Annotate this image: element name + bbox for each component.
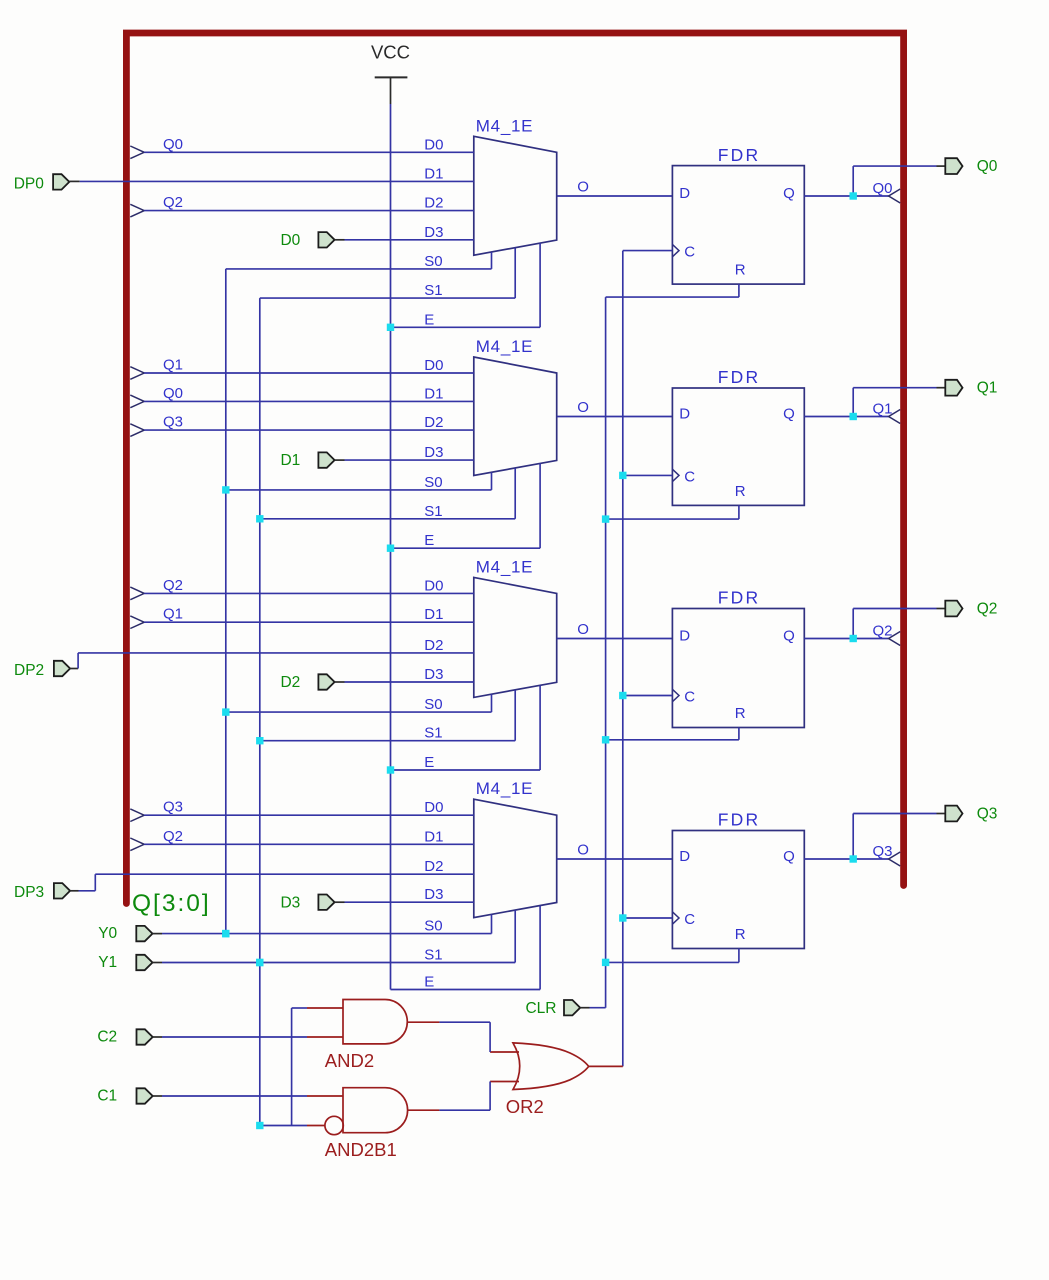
flip-flop FDR4 body: [672, 831, 804, 949]
svg-text:D: D: [679, 405, 690, 422]
svg-text:D2: D2: [424, 195, 443, 212]
svg-text:O: O: [577, 399, 589, 416]
svg-text:D0: D0: [424, 799, 443, 816]
junction reset row 4: [602, 959, 609, 966]
or gate OR2: [513, 1043, 589, 1090]
input port D0: [318, 232, 334, 247]
wire Q2 tap to mux U4: [144, 843, 474, 845]
input port D3: [318, 895, 334, 910]
svg-text:D0: D0: [424, 577, 443, 594]
svg-text:R: R: [735, 483, 746, 500]
svg-text:C: C: [684, 469, 695, 486]
wire FDR3 R to reset net: [738, 728, 740, 740]
input port DP3: [54, 883, 70, 898]
mux U2 M4_1E body: [474, 357, 557, 476]
wire DP3 to mux U4 D2: [70, 890, 78, 892]
junction clock row 4: [619, 914, 626, 921]
wire D3 port to mux U4: [335, 901, 345, 903]
and gate AND2B1 input stubs: [307, 1095, 343, 1097]
bus tap arrow Q3 output: [889, 852, 901, 866]
svg-text:S0: S0: [424, 253, 442, 270]
svg-text:D0: D0: [280, 232, 300, 249]
junction reset row 2: [602, 515, 609, 522]
junction S1 row 3: [256, 737, 263, 744]
wire S1 to mux U1: [260, 297, 515, 299]
svg-text:DP3: DP3: [14, 884, 44, 901]
svg-text:Q3: Q3: [163, 799, 183, 816]
and gate AND2B1 input bubble: [325, 1116, 343, 1134]
svg-text:Q: Q: [783, 185, 795, 202]
svg-text:D1: D1: [424, 385, 443, 402]
junction clock row 2: [619, 472, 626, 479]
and gate AND2: [343, 1000, 407, 1044]
svg-text:Q0: Q0: [163, 136, 183, 153]
svg-text:Q: Q: [783, 627, 795, 644]
svg-text:CLR: CLR: [525, 1000, 556, 1017]
flip-flop FDR2 clock wedge: [672, 469, 679, 481]
svg-text:R: R: [735, 262, 746, 279]
svg-text:R: R: [735, 705, 746, 722]
bus tap arrow Q2 row 3: [130, 587, 144, 600]
output port Q2: [945, 601, 962, 617]
bus tap arrow Q3 row 4: [130, 809, 144, 822]
wire Q3 to output port: [852, 814, 854, 860]
svg-text:FDR: FDR: [718, 588, 761, 608]
input port D2: [318, 674, 334, 689]
svg-text:Q2: Q2: [163, 194, 183, 211]
svg-text:D1: D1: [280, 452, 300, 469]
junction S0 row 3: [222, 708, 229, 715]
svg-text:E: E: [424, 311, 434, 328]
svg-text:C: C: [684, 244, 695, 261]
bus tap arrow Q3 row 2: [130, 424, 144, 437]
wire E to mux U1: [391, 326, 541, 328]
wire clock to FDR2 C: [623, 474, 673, 476]
svg-text:Q3: Q3: [163, 414, 183, 431]
svg-text:C: C: [684, 689, 695, 706]
wire clock to FDR3 C: [623, 695, 673, 697]
junction S0 row 2: [222, 486, 229, 493]
svg-text:Q1: Q1: [873, 401, 893, 418]
svg-text:FDR: FDR: [718, 367, 761, 387]
svg-text:Q3: Q3: [977, 806, 998, 823]
svg-text:D3: D3: [424, 224, 443, 241]
wire Y0 to S0 net: [153, 933, 163, 935]
flip-flop FDR3 body: [672, 609, 804, 728]
wire Q2 tap to mux U1: [144, 210, 474, 212]
svg-text:AND2B1: AND2B1: [325, 1139, 397, 1160]
svg-text:M4_1E: M4_1E: [476, 779, 533, 798]
bus tap arrow Q0 output: [889, 189, 901, 203]
wire Q1 tap to mux U3: [144, 621, 474, 623]
svg-text:E: E: [424, 754, 434, 771]
bus tap arrow Q1 output: [889, 410, 901, 424]
and gate AND2B1 output stub: [407, 1109, 439, 1111]
svg-text:D1: D1: [424, 165, 443, 182]
wire DP0 to mux U1 D1: [69, 180, 79, 182]
svg-text:FDR: FDR: [718, 145, 761, 165]
wire S0 to mux U3: [226, 711, 492, 713]
output port Q3: [945, 806, 962, 822]
junction S1 row 4: [256, 959, 263, 966]
svg-text:Q: Q: [783, 405, 795, 422]
mux U3 M4_1E body: [474, 577, 557, 697]
svg-text:D3: D3: [424, 886, 443, 903]
wire FDR3 Q output: [804, 638, 853, 640]
junction clock row 3: [619, 692, 626, 699]
wire C1 to AND2B1: [153, 1095, 162, 1097]
wire D1 port to mux U2: [335, 459, 345, 461]
svg-text:D3: D3: [424, 444, 443, 461]
wire D2 port to mux U3: [335, 681, 345, 683]
svg-text:D1: D1: [424, 606, 443, 623]
bus tap arrow Q2 output: [889, 632, 901, 646]
bus tap arrow Q0 row 2: [130, 395, 144, 408]
flip-flop FDR1 clock wedge: [672, 244, 679, 256]
svg-text:S1: S1: [424, 947, 442, 964]
junction reset row 3: [602, 736, 609, 743]
svg-text:D2: D2: [424, 414, 443, 431]
svg-text:VCC: VCC: [371, 42, 410, 63]
svg-text:S0: S0: [424, 918, 442, 935]
wire S1 to mux U3: [260, 740, 515, 742]
svg-text:D3: D3: [424, 666, 443, 683]
wire DP2 to mux U3 D2: [70, 668, 78, 670]
junction Q row 1: [850, 192, 857, 199]
svg-text:M4_1E: M4_1E: [476, 557, 533, 576]
wire E to mux U4: [391, 989, 541, 991]
svg-text:S1: S1: [424, 282, 442, 299]
svg-text:D2: D2: [424, 858, 443, 875]
svg-text:D1: D1: [424, 828, 443, 845]
and gate AND2 output stub: [407, 1021, 439, 1023]
wire O to FDR1 D: [557, 195, 673, 197]
bus tap arrow Q2 row 1: [130, 204, 144, 217]
wire FDR1 Q output: [804, 195, 853, 197]
svg-text:Y0: Y0: [98, 925, 117, 942]
svg-text:D0: D0: [424, 136, 443, 153]
svg-text:Q0: Q0: [977, 158, 998, 175]
svg-text:S0: S0: [424, 696, 442, 713]
wire O to FDR3 D: [557, 638, 673, 640]
junction Y1 S1: [256, 959, 263, 966]
svg-text:Q2: Q2: [163, 577, 183, 594]
svg-text:D2: D2: [280, 674, 300, 691]
svg-text:D2: D2: [424, 637, 443, 654]
wire O to FDR4 D: [557, 858, 673, 860]
bus tap arrow Q1 row 3: [130, 616, 144, 629]
svg-text:OR2: OR2: [506, 1096, 544, 1117]
bus Q[3:0] U-frame: [126, 33, 903, 904]
wire O to FDR2 D: [557, 416, 673, 418]
svg-text:S1: S1: [424, 503, 442, 520]
svg-text:Q0: Q0: [873, 180, 893, 197]
junction E row 3: [387, 766, 394, 773]
wire S0 to mux U4: [226, 933, 492, 935]
wire FDR1 R to reset net: [738, 284, 740, 297]
svg-text:Q1: Q1: [163, 357, 183, 374]
svg-text:Y1: Y1: [98, 954, 117, 971]
svg-text:R: R: [735, 926, 746, 943]
bus tap arrow Q1 row 2: [130, 367, 144, 380]
flip-flop FDR2 body: [672, 388, 804, 505]
wire C2 to AND2: [153, 1036, 162, 1038]
svg-text:O: O: [577, 842, 589, 859]
svg-text:D3: D3: [280, 894, 300, 911]
input port Y1: [136, 955, 152, 970]
output port Q0: [945, 158, 962, 174]
svg-text:D: D: [679, 185, 690, 202]
svg-text:O: O: [577, 621, 589, 638]
svg-text:Q1: Q1: [977, 380, 998, 397]
svg-text:Q2: Q2: [873, 623, 893, 640]
junction S0 row 4: [222, 930, 229, 937]
wire Q0 tap to mux U1: [144, 151, 474, 153]
junction S1 row 2: [256, 515, 263, 522]
svg-text:Q2: Q2: [163, 828, 183, 845]
svg-text:S1: S1: [424, 725, 442, 742]
or gate OR2 output stub: [589, 1065, 623, 1067]
wire Q0 tap to mux U2: [144, 400, 474, 402]
wire AND2 top input from S1ext: [292, 1007, 307, 1009]
power VCC symbol: [375, 76, 408, 78]
svg-text:E: E: [424, 974, 434, 991]
svg-text:DP2: DP2: [14, 662, 44, 679]
wire FDR2 R to reset net: [738, 505, 740, 519]
wire Q1 tap to mux U2: [144, 372, 474, 374]
wire S1 to mux U4: [260, 962, 515, 964]
input port C1: [137, 1088, 153, 1103]
input port C2: [137, 1029, 153, 1044]
wire S1 net vertical: [259, 298, 261, 1125]
wire Q3 tap to mux U2: [144, 429, 474, 431]
bus tap arrow Q2 row 4: [130, 838, 144, 851]
wire CLR to reset net: [580, 1007, 589, 1009]
svg-text:AND2: AND2: [325, 1050, 374, 1071]
svg-text:FDR: FDR: [718, 810, 761, 830]
wire C clock net vertical: [622, 251, 624, 1067]
wire FDR4 Q output: [804, 858, 853, 860]
wire Q3 tap to mux U4: [144, 814, 474, 816]
wire FDR2 Q output: [804, 416, 853, 418]
svg-text:D: D: [679, 627, 690, 644]
svg-text:D: D: [679, 848, 690, 865]
wire S0 to mux U2: [226, 489, 492, 491]
bus tap arrow Q0 row 1: [130, 146, 144, 159]
junction Q row 4: [850, 855, 857, 862]
wire Q0 to output port: [852, 166, 854, 196]
wire FDR4 R to reset net: [738, 949, 740, 963]
wire clock to FDR1 C: [623, 250, 673, 252]
svg-text:Q: Q: [783, 848, 795, 865]
junction E row 2: [387, 545, 394, 552]
wire Y1 to S1 net: [153, 962, 163, 964]
svg-text:Q0: Q0: [163, 385, 183, 402]
wire VCC net vertical: [390, 104, 392, 990]
wire AND2B1 out to OR2: [439, 1109, 490, 1111]
svg-text:D0: D0: [424, 357, 443, 374]
flip-flop FDR4 clock wedge: [672, 912, 679, 924]
and gate AND2B1: [343, 1088, 408, 1133]
svg-text:S0: S0: [424, 474, 442, 491]
input port DP2: [54, 661, 70, 676]
mux U1 M4_1E body: [474, 136, 557, 255]
wire S0 to mux U1: [226, 268, 492, 270]
output port Q1: [945, 380, 962, 396]
junction Y0 S0: [222, 930, 229, 937]
svg-text:C2: C2: [97, 1029, 117, 1046]
input port CLR: [564, 1000, 580, 1015]
svg-text:O: O: [577, 179, 589, 196]
or gate OR2 input stubs: [490, 1051, 519, 1053]
flip-flop FDR3 clock wedge: [672, 689, 679, 701]
flip-flop FDR1 body: [672, 166, 804, 285]
input port D1: [318, 452, 334, 467]
junction Q row 2: [850, 413, 857, 420]
wire S1 ext to AND2B1: [260, 1125, 307, 1127]
svg-text:Q1: Q1: [163, 606, 183, 623]
svg-text:C1: C1: [97, 1088, 117, 1105]
svg-text:Q[3:0]: Q[3:0]: [132, 890, 211, 917]
svg-text:M4_1E: M4_1E: [476, 116, 533, 135]
svg-text:Q3: Q3: [873, 843, 893, 860]
junction Q row 3: [850, 635, 857, 642]
wire R net vertical: [605, 297, 607, 1008]
junction S1 AND2B1: [256, 1122, 263, 1129]
svg-text:DP0: DP0: [14, 175, 45, 192]
wire Q2 tap to mux U3: [144, 592, 474, 594]
junction E row 1: [387, 324, 394, 331]
svg-text:C: C: [684, 911, 695, 928]
svg-text:Q2: Q2: [977, 601, 998, 618]
wire AND2 out to OR2: [439, 1021, 490, 1023]
svg-text:M4_1E: M4_1E: [476, 337, 533, 356]
input port DP0: [53, 174, 69, 189]
wire Q2 to output port: [852, 609, 854, 639]
input port Y0: [136, 926, 152, 941]
wire Q1 to output port: [852, 388, 854, 417]
and gate AND2 input stubs: [307, 1007, 343, 1009]
wire D0 port to mux U1: [335, 239, 345, 241]
wire E to mux U3: [391, 769, 541, 771]
svg-text:E: E: [424, 532, 434, 549]
mux U4 M4_1E body: [474, 799, 557, 917]
wire S0 net vertical: [225, 269, 227, 934]
wire S1 to mux U2: [260, 518, 515, 520]
wire E to mux U2: [391, 547, 541, 549]
wire clock to FDR4 C: [623, 917, 673, 919]
